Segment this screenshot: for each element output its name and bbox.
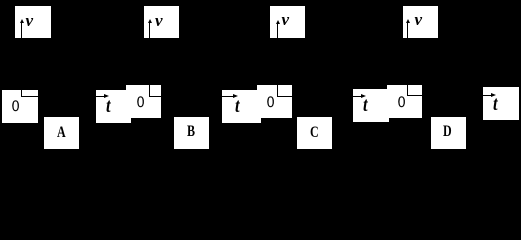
t-axis segment over O-box B bbox=[149, 96, 161, 97]
t-axis arrowhead D bbox=[491, 93, 496, 97]
O-origin box A bbox=[2, 90, 38, 123]
t label B bbox=[235, 96, 240, 116]
O-origin box B bbox=[126, 85, 161, 118]
v-label box C bbox=[270, 6, 305, 38]
answer letter box C bbox=[297, 117, 332, 149]
answer letter box B bbox=[174, 117, 209, 149]
t-axis shaft C bbox=[353, 96, 362, 97]
t-label box C bbox=[353, 89, 389, 122]
letter C bbox=[310, 125, 319, 141]
t-axis arrowhead C bbox=[361, 94, 366, 98]
t-axis segment over O-box D bbox=[407, 95, 422, 96]
t-axis arrowhead A bbox=[104, 94, 109, 98]
t-label box B bbox=[222, 90, 261, 123]
O label D bbox=[398, 95, 405, 111]
t label D bbox=[493, 94, 498, 114]
v-axis shaft B bbox=[149, 22, 150, 38]
v-axis segment over O-box C bbox=[277, 85, 278, 96]
v label C bbox=[282, 11, 290, 28]
v-label box B bbox=[144, 6, 179, 38]
letter B bbox=[187, 124, 195, 140]
t label C bbox=[363, 95, 368, 115]
O label B bbox=[137, 95, 144, 111]
t-axis arrowhead B bbox=[233, 94, 238, 98]
answer letter box D bbox=[431, 117, 466, 149]
v label B bbox=[155, 12, 163, 29]
v-axis arrowhead D bbox=[406, 19, 410, 23]
answer letter box A bbox=[44, 117, 79, 149]
v-axis segment over O-box D bbox=[407, 85, 408, 95]
v-axis shaft A bbox=[21, 22, 22, 38]
t-axis shaft B bbox=[222, 96, 234, 97]
v-label box D bbox=[403, 6, 438, 38]
t-axis shaft A bbox=[96, 96, 105, 97]
t-axis segment over O-box C bbox=[277, 96, 292, 97]
t-label box D bbox=[483, 87, 519, 120]
v-axis shaft D bbox=[407, 22, 408, 38]
v-label box A bbox=[15, 6, 51, 38]
t label A bbox=[106, 96, 111, 116]
letter D bbox=[443, 124, 452, 140]
v-axis segment over O-box A bbox=[21, 90, 22, 96]
v label A bbox=[26, 12, 34, 29]
v-axis arrowhead B bbox=[148, 19, 152, 23]
O label C bbox=[267, 95, 274, 111]
v-axis arrowhead C bbox=[276, 20, 280, 24]
t-axis shaft D bbox=[483, 95, 492, 96]
O label A bbox=[12, 99, 19, 115]
v label D bbox=[415, 11, 423, 28]
letter A bbox=[57, 125, 66, 141]
v-axis arrowhead A bbox=[20, 19, 24, 23]
t-axis segment over O-box A bbox=[21, 96, 38, 97]
O-origin box C bbox=[257, 85, 292, 118]
v-axis segment over O-box B bbox=[149, 85, 150, 96]
t-label box A bbox=[96, 90, 131, 123]
v-axis shaft C bbox=[277, 24, 278, 38]
O-origin box D bbox=[387, 85, 422, 118]
